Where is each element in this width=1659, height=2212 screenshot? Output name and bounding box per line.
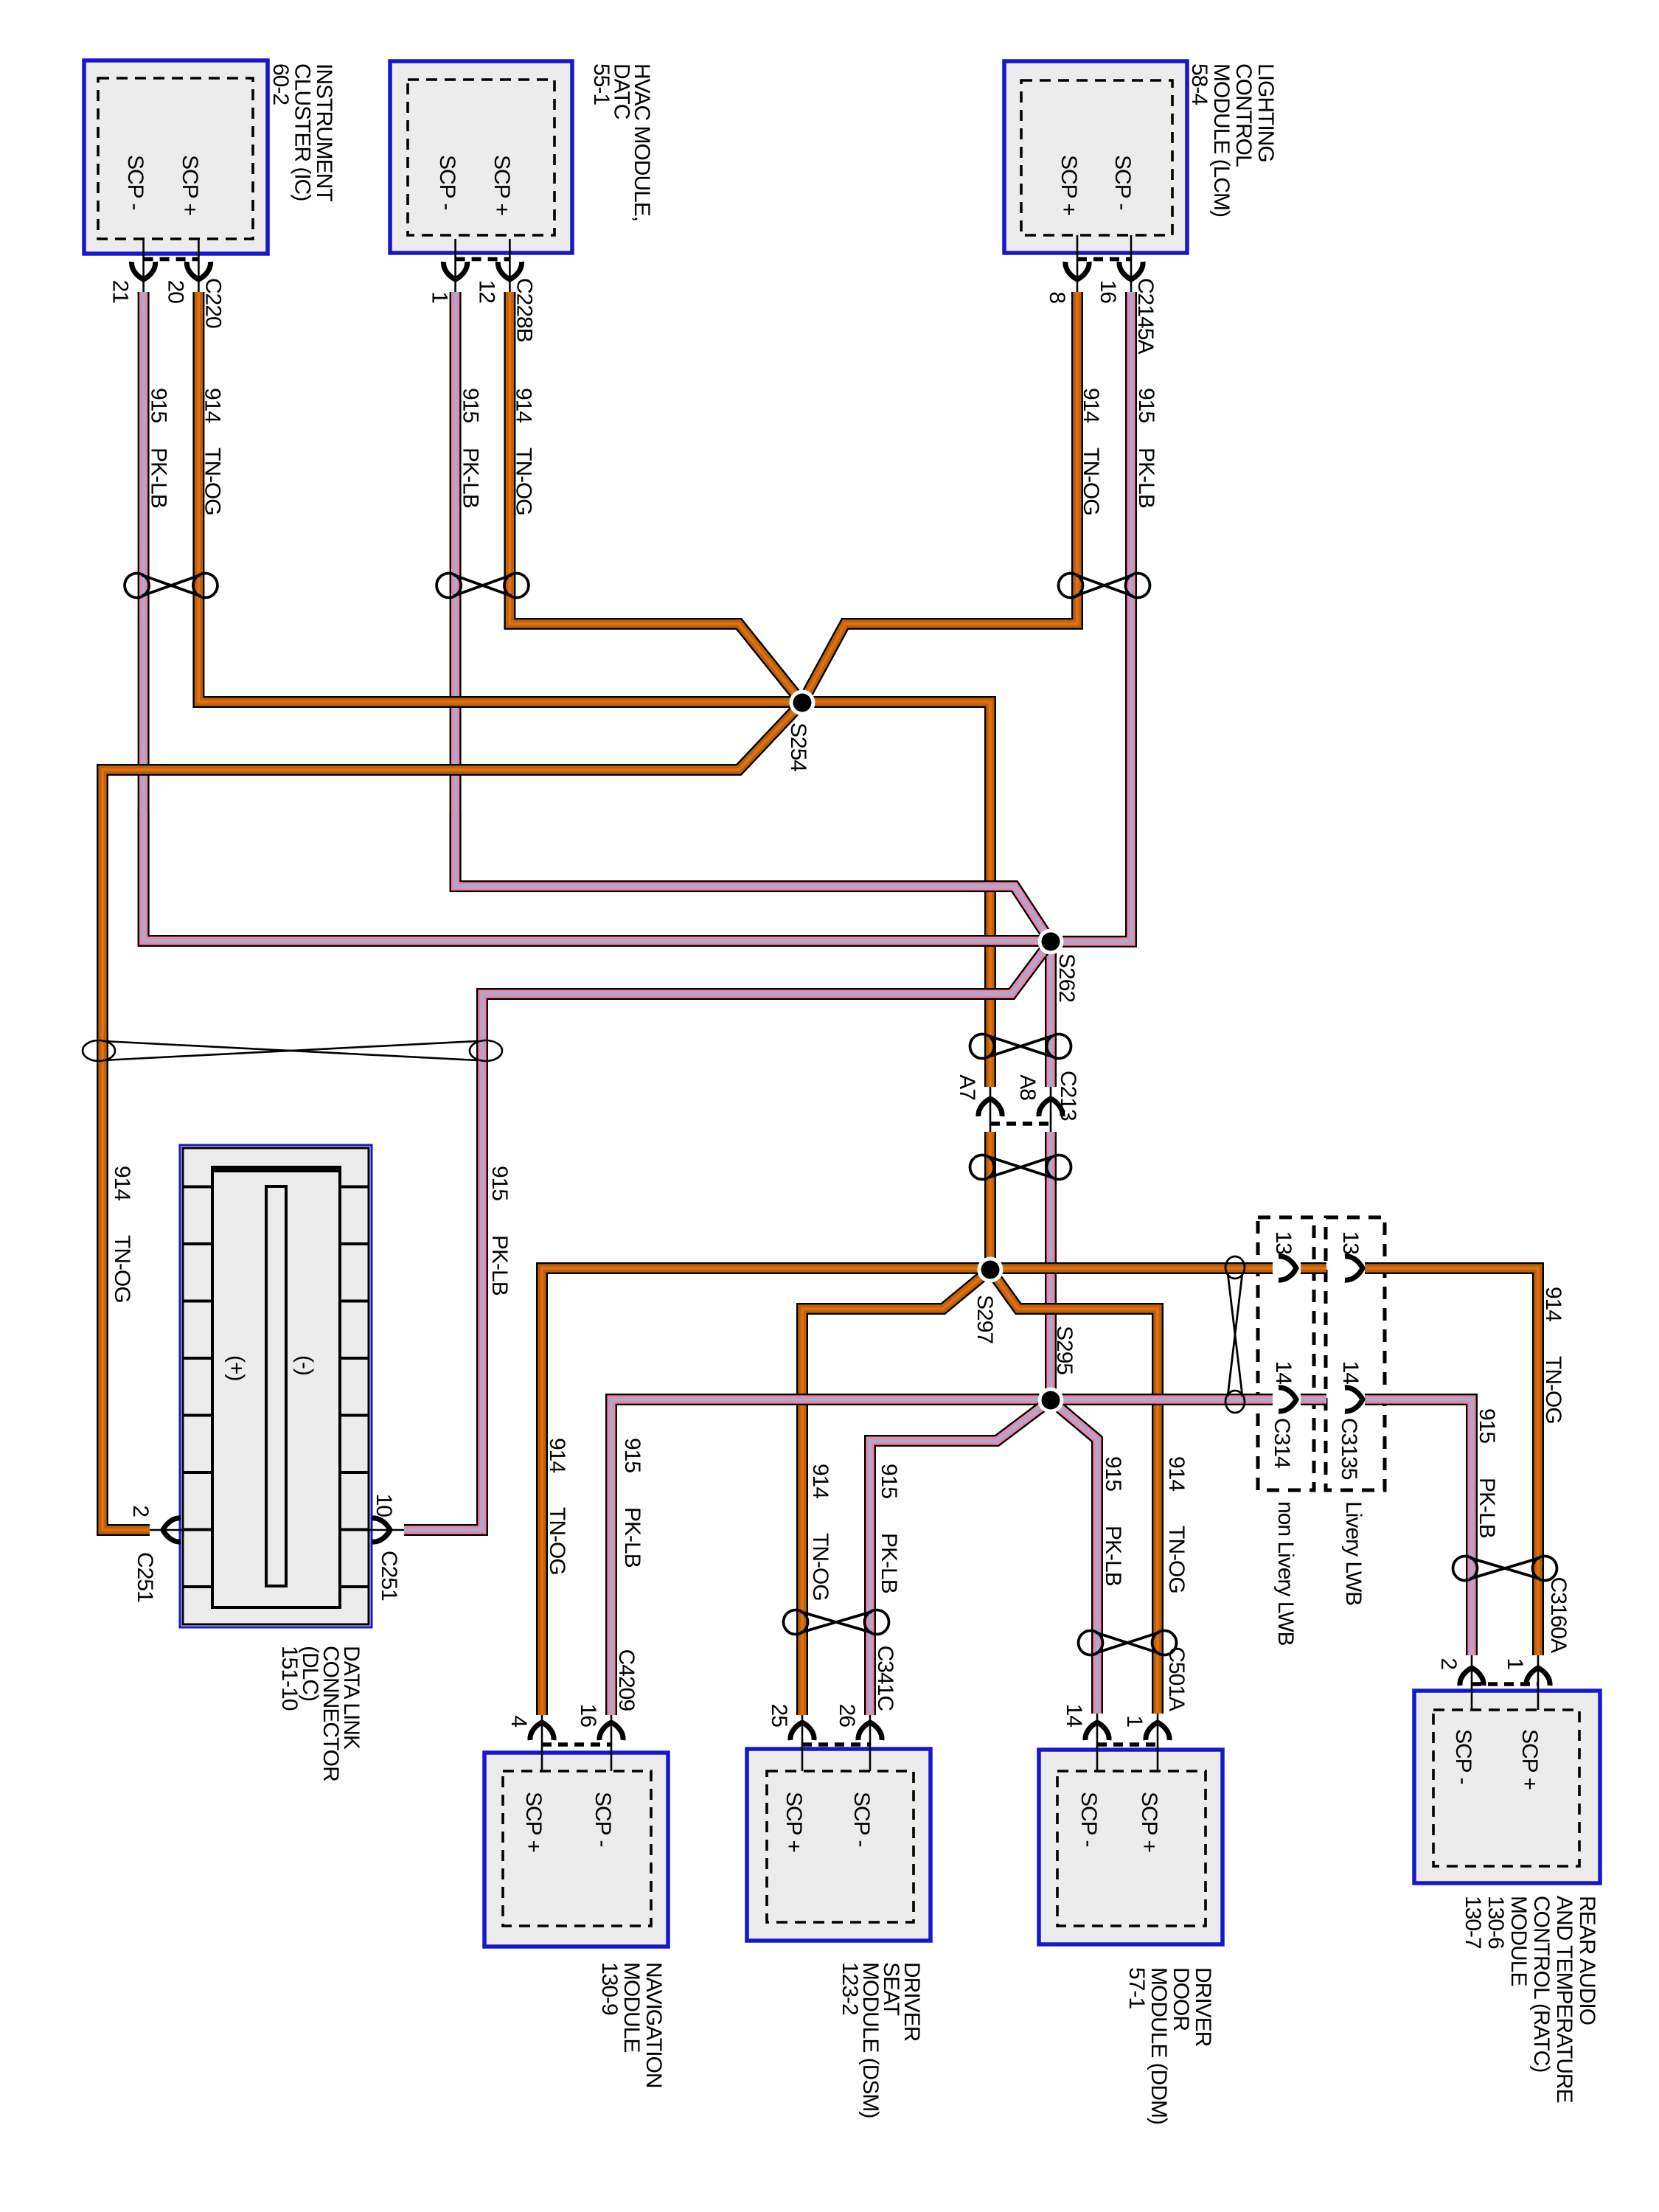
wire 915 PK-LB HVAC corner to splice S262 (456, 811, 1051, 942)
svg-text:C3135: C3135 (1337, 1418, 1361, 1480)
svg-text:CLUSTER (IC): CLUSTER (IC) (291, 63, 315, 201)
svg-text:SCP +: SCP + (1057, 155, 1081, 215)
connector C213 inline (990, 1087, 992, 1132)
svg-text:C4209: C4209 (614, 1649, 639, 1711)
svg-text:DOOR: DOOR (1169, 1967, 1193, 2031)
svg-text:13: 13 (1271, 1231, 1295, 1255)
svg-text:915: 915 (1134, 388, 1158, 422)
wire 914 TN-OG splice S254 to C213 pin A7 (801, 702, 990, 1087)
twisted pair symbol above C213 (970, 1034, 1071, 1059)
wire 915 PK-LB inside C314/C3135 (1301, 1394, 1326, 1405)
svg-text:PK-LB: PK-LB (147, 448, 171, 508)
svg-text:915: 915 (147, 388, 171, 422)
svg-text:INSTRUMENT: INSTRUMENT (312, 63, 336, 201)
pin arrow LCM pin 8 (1065, 262, 1089, 279)
svg-text:A7: A7 (955, 1074, 979, 1100)
svg-text:58-4: 58-4 (1187, 63, 1211, 105)
connector C2145A dashed line (1077, 257, 1131, 262)
twisted pair symbol above DDM (1079, 1631, 1177, 1655)
svg-text:C3160A: C3160A (1546, 1577, 1571, 1653)
svg-text:PK-LB: PK-LB (1101, 1526, 1125, 1586)
svg-text:TN-OG: TN-OG (1541, 1356, 1565, 1424)
connector C213 dashed line (990, 1121, 1051, 1126)
svg-text:915: 915 (1101, 1456, 1125, 1491)
svg-text:LIGHTING: LIGHTING (1253, 63, 1278, 162)
connector C341C at DSM (801, 1715, 804, 1771)
svg-text:SCP -: SCP - (591, 1792, 615, 1846)
svg-text:CONTROL: CONTROL (1231, 63, 1256, 167)
twisted pair symbol above DSM (784, 1610, 889, 1635)
twisted pair symbol below IC (125, 574, 218, 598)
wire 915 PK-LB splice S295 to DSM pin 26 (870, 1400, 1051, 1715)
svg-text:915: 915 (459, 388, 483, 422)
svg-text:915: 915 (877, 1464, 901, 1498)
svg-text:PK-LB: PK-LB (487, 1235, 512, 1295)
svg-text:2: 2 (1436, 1658, 1461, 1669)
pin arrow DLC pin 10 (372, 1518, 390, 1542)
module box HVAC Module DATC (390, 61, 572, 253)
svg-text:non Livery LWB: non Livery LWB (1273, 1501, 1298, 1646)
wire 915 PK-LB from HVAC pin 1 (vertical) (450, 292, 462, 891)
twisted pair symbol above C3160A (1453, 1557, 1557, 1581)
svg-text:C220: C220 (201, 278, 225, 328)
wire 915 PK-LB splice S262 to DLC pin 10 (404, 942, 1051, 1530)
svg-text:915: 915 (1475, 1408, 1499, 1443)
svg-text:S262: S262 (1054, 953, 1079, 1002)
svg-text:914: 914 (110, 1166, 134, 1200)
svg-text:TN-OG: TN-OG (110, 1235, 134, 1303)
svg-text:TN-OG: TN-OG (200, 448, 224, 515)
svg-text:14: 14 (1062, 1704, 1086, 1728)
pin arrow RATC pin 2 (1460, 1668, 1484, 1686)
pin arrow C3135 pin 14 (1345, 1388, 1363, 1411)
wire 915 PK-LB splice S295 to NAV pin 16 (611, 1399, 1051, 1715)
connector C2145A at LCM (1077, 235, 1079, 292)
splice S254 (790, 690, 815, 716)
wire 914 TN-OG splice S254 to DLC pin 2 (102, 703, 802, 1530)
svg-text:151-10: 151-10 (277, 1646, 302, 1711)
wire 915 PK-LB C3135 pin 14 to RATC pin 2 (1365, 1399, 1472, 1655)
svg-text:C314: C314 (1270, 1418, 1294, 1468)
twisted pair symbol below LCM (1059, 574, 1150, 598)
pin arrow DSM pin 26 (858, 1722, 882, 1740)
svg-text:(+): (+) (224, 1355, 248, 1381)
pin arrow C213 pin A8 (1039, 1099, 1062, 1116)
pin arrow IC pin 21 (132, 262, 156, 279)
svg-text:10: 10 (372, 1494, 396, 1517)
svg-text:SCP -: SCP - (435, 155, 459, 209)
svg-text:SCP +: SCP + (521, 1792, 546, 1852)
connector C228B dashed line (456, 257, 510, 262)
twisted pair symbol below C213 (970, 1155, 1071, 1180)
wire 915 PK-LB C213 to splice S295 (1045, 1132, 1057, 1400)
svg-text:C2145A: C2145A (1133, 278, 1158, 354)
svg-text:1: 1 (1122, 1715, 1147, 1727)
svg-text:914: 914 (545, 1438, 569, 1472)
pin arrow DSM pin 25 (790, 1722, 814, 1740)
svg-text:25: 25 (767, 1704, 791, 1728)
svg-text:914: 914 (1541, 1287, 1565, 1321)
svg-text:REAR AUDIO: REAR AUDIO (1575, 1896, 1599, 2025)
svg-text:SCP -: SCP - (1110, 155, 1135, 209)
svg-text:2: 2 (128, 1505, 153, 1517)
svg-text:MODULE: MODULE (619, 1962, 644, 2052)
svg-text:PK-LB: PK-LB (877, 1533, 901, 1593)
connector C251 at DLC (150, 1529, 183, 1531)
svg-text:130-6: 130-6 (1484, 1896, 1508, 1949)
pin arrow DDM pin 1 (1146, 1722, 1169, 1740)
svg-text:130-7: 130-7 (1461, 1896, 1485, 1949)
module box Navigation Module (484, 1753, 668, 1947)
pin arrow C213 pin A7 (978, 1099, 1002, 1116)
pin arrow IC pin 20 (187, 262, 210, 279)
svg-text:(-): (-) (293, 1355, 317, 1375)
wire 914 TN-OG C3135 pin 13 to RATC pin 1 (1365, 1268, 1538, 1655)
splice S262 (1038, 929, 1064, 955)
wire 914 TN-OG from HVAC pin 12 to splice S254 (509, 292, 802, 703)
svg-text:MODULE: MODULE (1506, 1896, 1531, 1986)
pin arrow C314 pin 14 (1279, 1388, 1296, 1411)
pin arrow DLC pin 2 (163, 1518, 181, 1542)
svg-text:PK-LB: PK-LB (620, 1507, 644, 1568)
svg-text:16: 16 (1096, 280, 1120, 304)
svg-text:14: 14 (1271, 1361, 1295, 1385)
pin arrow LCM pin 16 (1119, 262, 1143, 279)
pin arrow NAV pin 4 (530, 1722, 554, 1740)
svg-text:130-9: 130-9 (597, 1962, 622, 2015)
wire 915 PK-LB splice S295 to C314 pin 14 (1051, 1394, 1273, 1405)
connector C4209 dashed line (542, 1742, 611, 1747)
module box Data Link Connector (DLC) (180, 1145, 372, 1627)
svg-text:PK-LB: PK-LB (1475, 1478, 1499, 1538)
svg-text:PK-LB: PK-LB (1134, 448, 1158, 508)
svg-text:SCP +: SCP + (782, 1792, 806, 1852)
svg-text:CONTROL (RATC): CONTROL (RATC) (1529, 1896, 1554, 2072)
svg-text:914: 914 (200, 388, 224, 422)
svg-text:PK-LB: PK-LB (459, 448, 483, 508)
svg-text:MODULE (DDM): MODULE (DDM) (1147, 1967, 1171, 2124)
module box Driver Door Module (DDM) (1039, 1750, 1222, 1944)
svg-text:55-1: 55-1 (589, 63, 613, 105)
pin arrow C3135 pin 13 (1345, 1256, 1363, 1280)
svg-text:A8: A8 (1015, 1074, 1040, 1100)
connector C501A dashed line (1097, 1742, 1158, 1747)
svg-text:16: 16 (576, 1704, 600, 1728)
svg-text:Livery LWB: Livery LWB (1341, 1501, 1366, 1605)
connector C501A at DDM (1096, 1714, 1099, 1771)
svg-text:4: 4 (507, 1715, 531, 1727)
connector box C314 (non Livery LWB) (1258, 1217, 1314, 1490)
svg-text:TN-OG: TN-OG (545, 1507, 569, 1575)
svg-text:57-1: 57-1 (1124, 1967, 1149, 2008)
svg-text:SCP +: SCP + (178, 155, 202, 215)
svg-text:C228B: C228B (512, 278, 536, 342)
wire 915 PK-LB from IC pin 21 (vertical) (138, 292, 150, 945)
svg-text:914: 914 (511, 388, 535, 422)
wire 915 PK-LB IC corner to splice S262 (144, 811, 1051, 941)
long twisted pair symbol before C314 (1225, 1256, 1245, 1413)
svg-text:914: 914 (1164, 1456, 1189, 1491)
module box RATC Module (1414, 1691, 1600, 1883)
svg-text:8: 8 (1045, 291, 1069, 303)
svg-text:C501A: C501A (1164, 1646, 1189, 1711)
svg-text:26: 26 (835, 1704, 859, 1728)
svg-text:SCP -: SCP - (123, 155, 147, 209)
connector C220 dashed line (144, 257, 199, 262)
svg-text:SCP -: SCP - (1451, 1729, 1475, 1784)
svg-text:SCP -: SCP - (849, 1792, 874, 1846)
connector C3160A at RATC (1471, 1655, 1473, 1710)
svg-text:914: 914 (1079, 388, 1103, 422)
svg-text:C213: C213 (1056, 1071, 1080, 1121)
module box Instrument Cluster (IC) (84, 60, 268, 254)
svg-text:21: 21 (108, 280, 133, 304)
wire 914 TN-OG splice S297 to DSM pin 25 (802, 1270, 990, 1715)
wire 914 TN-OG splice S297 to DDM pin 1 (990, 1270, 1158, 1714)
svg-text:60-2: 60-2 (268, 63, 293, 105)
svg-text:C251: C251 (377, 1551, 401, 1601)
splice S295 (1038, 1388, 1064, 1413)
wire 915 PK-LB splice S295 to DDM pin 14 (1051, 1400, 1097, 1714)
connector C4209 at NAV (541, 1715, 543, 1771)
wire 914 TN-OG splice S297 to C314 pin 13 (990, 1262, 1273, 1274)
wire 914 TN-OG splice S297 to NAV pin 4 (542, 1268, 990, 1715)
svg-text:SCP +: SCP + (1137, 1792, 1161, 1852)
long twisted pair symbol near DLC (83, 1040, 502, 1061)
svg-text:MODULE (LCM): MODULE (LCM) (1209, 63, 1234, 217)
twisted pair symbol below HVAC (437, 574, 529, 598)
wire 914 TN-OG inside C314/C3135 (1301, 1262, 1326, 1274)
connector C341C dashed line (802, 1742, 870, 1747)
wire 915 PK-LB from LCM pin 16 to splice S262 (1051, 292, 1131, 942)
svg-text:SCP -: SCP - (1077, 1792, 1101, 1846)
wire 914 TN-OG from IC pin 20 to splice S254 (198, 292, 801, 702)
svg-text:TN-OG: TN-OG (511, 448, 535, 515)
connector box C3135 (Livery LWB) (1326, 1217, 1385, 1490)
svg-text:S297: S297 (973, 1295, 997, 1343)
svg-text:S254: S254 (786, 723, 810, 771)
splice S297 (978, 1257, 1004, 1283)
svg-text:DRIVER: DRIVER (1191, 1967, 1215, 2047)
pin arrow C314 pin 13 (1279, 1256, 1296, 1280)
module box Driver Seat Module (DSM) (747, 1749, 931, 1941)
svg-text:915: 915 (620, 1438, 644, 1472)
pin arrow NAV pin 16 (599, 1722, 623, 1740)
connector C220 at IC (142, 239, 145, 292)
svg-text:C251: C251 (133, 1552, 157, 1602)
svg-text:20: 20 (163, 280, 187, 304)
svg-text:TN-OG: TN-OG (1079, 448, 1103, 515)
svg-text:914: 914 (808, 1464, 832, 1498)
svg-text:14: 14 (1338, 1361, 1363, 1385)
svg-text:AND TEMPERATURE: AND TEMPERATURE (1552, 1896, 1576, 2103)
svg-text:SCP +: SCP + (1517, 1729, 1542, 1790)
svg-text:SCP +: SCP + (490, 155, 514, 215)
svg-text:S295: S295 (1052, 1326, 1077, 1374)
pin arrow DDM pin 14 (1085, 1722, 1109, 1740)
svg-text:1: 1 (1503, 1658, 1527, 1669)
svg-text:TN-OG: TN-OG (808, 1533, 832, 1601)
connector C3160A dashed line (1472, 1682, 1538, 1686)
svg-text:C341C: C341C (873, 1646, 897, 1711)
connector C228B at HVAC (454, 239, 456, 292)
svg-text:1: 1 (428, 291, 452, 303)
pin arrow HVAC pin 12 (498, 262, 521, 279)
pin arrow HVAC pin 1 (444, 262, 467, 279)
svg-text:915: 915 (487, 1166, 512, 1200)
svg-text:123-2: 123-2 (838, 1962, 862, 2015)
svg-text:13: 13 (1338, 1231, 1363, 1255)
svg-text:NAVIGATION: NAVIGATION (641, 1962, 666, 2088)
wire 914 TN-OG C213 to splice S297 (984, 1132, 996, 1270)
svg-text:12: 12 (474, 280, 498, 304)
pin arrow RATC pin 1 (1526, 1668, 1550, 1686)
svg-text:TN-OG: TN-OG (1164, 1526, 1189, 1593)
module box Lighting Control Module (LCM) (1004, 61, 1187, 253)
wire 914 TN-OG from LCM pin 8 to splice S254 (802, 292, 1077, 703)
wire 915 PK-LB S262 to C213 pin A8 (1045, 942, 1057, 1087)
